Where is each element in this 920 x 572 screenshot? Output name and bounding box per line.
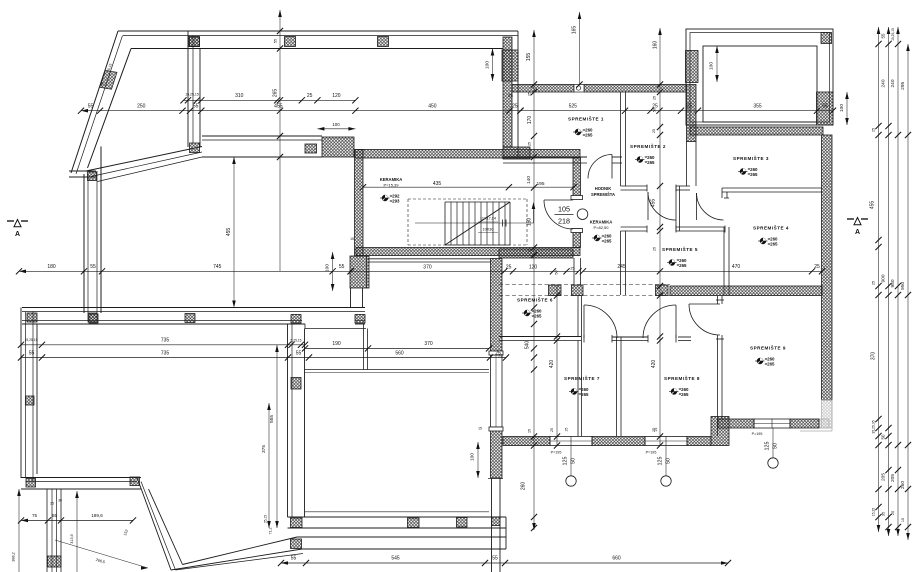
pier: hatched block below stair-room left wall	[350, 256, 369, 288]
wall: room4/5 partition x724-729	[723, 227, 725, 295]
wall: horizontal wall y136-157	[202, 135, 322, 137]
svg-text:=265: =265	[679, 392, 689, 397]
window gap in band	[574, 85, 584, 93]
svg-text:50: 50	[666, 458, 672, 464]
svg-text:370: 370	[424, 341, 433, 347]
wall: bottom wall y477-489	[21, 477, 141, 479]
door arc room7	[584, 305, 617, 338]
section marker A right	[847, 218, 854, 220]
wall: partition x676-679 vestibule	[675, 186, 677, 231]
svg-text:140: 140	[526, 176, 532, 184]
columns on band	[27, 313, 37, 322]
svg-text:560: 560	[395, 350, 404, 356]
svg-text:313,9: 313,9	[70, 534, 74, 544]
svg-text:SPREMIŠTE 6: SPREMIŠTE 6	[517, 296, 553, 303]
svg-text:525: 525	[569, 103, 578, 109]
wall: room7/8 partition x616-621	[616, 337, 618, 436]
door arc room9	[689, 304, 720, 335]
svg-text:25: 25	[527, 142, 531, 146]
svg-text:55: 55	[274, 39, 278, 43]
wall: hatched band y286-295 rooms4-9	[670, 286, 822, 296]
svg-text:260: 260	[900, 481, 906, 489]
door arc room1	[588, 155, 612, 179]
wall: terrace outer walls	[686, 29, 833, 125]
dim chain y271 right part	[351, 270, 579, 272]
wall: room1 bottom wall y157-163	[503, 156, 587, 158]
column K8 in wall	[305, 144, 317, 153]
pier: hatched block at corridor corner	[503, 147, 530, 159]
slanted dims bottom-left	[123, 529, 129, 536]
svg-text:10X30: 10X30	[483, 228, 494, 232]
svg-text:SPREMIŠTE 7: SPREMIŠTE 7	[564, 374, 600, 381]
wall: terrace inner parapet	[703, 46, 817, 122]
wall: room6 bottom wall y336-340	[499, 336, 581, 338]
svg-text:100: 100	[324, 264, 330, 272]
svg-text:=265: =265	[677, 263, 687, 268]
wall: terrace bottom hatched band y127-135	[690, 127, 823, 135]
wall: shallow slanted wall rising to east	[171, 549, 302, 570]
svg-text:100: 100	[470, 453, 476, 461]
svg-text:25: 25	[653, 96, 657, 100]
svg-text:15,25,15: 15,25,15	[185, 92, 199, 96]
svg-text:50: 50	[653, 108, 657, 112]
pier D3	[656, 285, 669, 296]
column in shaft	[48, 556, 62, 567]
svg-text:P=82,50: P=82,50	[593, 225, 609, 230]
svg-text:25: 25	[654, 428, 658, 432]
svg-text:P=195: P=195	[752, 432, 763, 436]
column M3	[408, 518, 420, 528]
svg-text:150: 150	[526, 218, 532, 227]
dim chain y110 top	[81, 110, 521, 112]
svg-text:35: 35	[881, 511, 886, 516]
svg-text:455: 455	[651, 199, 657, 208]
svg-text:245: 245	[617, 264, 626, 270]
wall: lower-left shaft walls	[46, 489, 48, 572]
wall: horizontal band y307-324	[22, 307, 365, 309]
dim chain y111 room1 and terrace	[521, 110, 834, 112]
wall: stair room right wall x573-580 with door opening	[573, 158, 581, 200]
svg-text:=265: =265	[645, 160, 655, 165]
dim chain y348 (190/370)	[305, 347, 489, 349]
svg-text:25: 25	[307, 93, 313, 99]
wall: left hatched wall x490-502	[491, 259, 503, 356]
svg-text:25: 25	[872, 281, 876, 285]
column L1	[26, 396, 35, 405]
dim 165 corridor top	[579, 12, 581, 85]
svg-text:15,25: 15,25	[872, 508, 876, 517]
wall: room5 left wall x620-625	[620, 231, 622, 295]
column K6	[190, 143, 200, 153]
svg-text:25: 25	[565, 428, 569, 432]
svg-text:25: 25	[687, 103, 693, 109]
svg-text:55: 55	[881, 33, 886, 38]
window axis room8	[665, 446, 667, 477]
wall: right exterior hatched wall x822-832	[822, 135, 833, 400]
wall: top exterior wall of upper-left rooms	[118, 30, 518, 32]
svg-text:25: 25	[872, 128, 876, 132]
svg-text:55: 55	[29, 350, 35, 356]
pier D2	[572, 285, 584, 296]
stairs: diagonal walk line	[445, 202, 510, 245]
right dim chain C x898	[897, 27, 899, 536]
dims 555/375 bottom-center left	[276, 345, 278, 528]
svg-text:25: 25	[498, 354, 502, 358]
column L3	[130, 477, 140, 486]
svg-text:5,25,15: 5,25,15	[291, 339, 302, 343]
dim chain y520 bottom-left	[21, 519, 133, 521]
svg-text:900: 900	[881, 274, 887, 282]
svg-text:P=15,39: P=15,39	[383, 183, 399, 188]
window room9	[754, 419, 790, 428]
svg-text:165: 165	[572, 26, 578, 35]
svg-text:355: 355	[753, 103, 762, 109]
wall: vertical hatched wall x503-512	[503, 37, 512, 147]
svg-text:A: A	[15, 231, 20, 238]
dim 100 terrace east	[846, 92, 848, 125]
insulation patch on slanted wall	[100, 71, 117, 90]
dim 388,2 far left bottom	[18, 489, 20, 572]
svg-text:=265: =265	[579, 392, 589, 397]
interior face lines below stair band	[368, 258, 491, 260]
axis line x660	[659, 28, 661, 446]
svg-text:125: 125	[657, 457, 663, 466]
jamb caps rooms7/8 doors	[611, 335, 613, 343]
svg-text:195: 195	[536, 181, 544, 187]
svg-text:55: 55	[193, 103, 199, 109]
svg-text:950: 950	[900, 281, 906, 289]
axis line x557	[556, 285, 558, 447]
svg-text:SPREMIŠTE 4: SPREMIŠTE 4	[753, 224, 789, 231]
inner slant wall lines	[115, 495, 120, 497]
svg-text:=265: =265	[748, 172, 758, 177]
column terrace NE	[821, 33, 832, 44]
dim 313,9	[76, 491, 78, 572]
wall: short wall below pier	[350, 288, 352, 308]
column K2 on top wall	[285, 37, 296, 47]
svg-text:25,15: 25,15	[264, 515, 268, 523]
svg-text:545: 545	[391, 555, 400, 561]
svg-text:SPREMIŠTE 9: SPREMIŠTE 9	[750, 344, 786, 351]
svg-text:205: 205	[881, 473, 887, 481]
svg-text:=265: =265	[532, 314, 542, 319]
svg-text:35,25,35: 35,25,35	[872, 420, 876, 433]
jamb caps vestibule	[646, 185, 648, 192]
door 105 swing arc into stair room	[544, 200, 573, 229]
svg-text:265: 265	[273, 89, 279, 98]
wall: hatched wall x686-696 between room2 and room3	[687, 85, 697, 142]
svg-text:240: 240	[890, 79, 896, 87]
column M4	[291, 539, 302, 549]
window room8	[645, 437, 687, 446]
svg-text:240: 240	[881, 79, 887, 87]
svg-text:120: 120	[332, 93, 341, 99]
wall: room2 bottom wall y186-190	[621, 185, 648, 187]
svg-text:310: 310	[235, 93, 244, 99]
pier: big block 500-518 y50-81	[502, 50, 518, 81]
step lines below band toward room	[304, 324, 306, 329]
svg-text:=265: =265	[768, 242, 778, 247]
wall: slanted lower wall of pentagon room	[86, 147, 202, 172]
svg-text:190: 190	[332, 341, 341, 347]
svg-text:15,25,15: 15,25,15	[891, 28, 895, 41]
section marker A left	[7, 220, 14, 222]
svg-text:420: 420	[651, 360, 657, 369]
svg-text:A: A	[855, 229, 860, 236]
svg-text:15,25,15: 15,25,15	[25, 338, 38, 342]
door jambs of door 105	[571, 196, 583, 200]
wall: corridor bottom wall hatched y249-258	[499, 249, 573, 258]
column K4 at west corner	[88, 172, 97, 181]
wall: bottom wall y517-528	[288, 516, 507, 518]
svg-text:189,6: 189,6	[91, 513, 103, 518]
svg-text:SPREMIŠTE 3: SPREMIŠTE 3	[733, 154, 769, 161]
wall: lower step band y537-549	[297, 536, 506, 538]
window axis room7	[570, 446, 572, 477]
column K5	[88, 313, 97, 322]
dim 100 below stair room	[332, 252, 334, 291]
svg-text:455: 455	[274, 103, 283, 109]
svg-text:SPREMIŠTA: SPREMIŠTA	[591, 192, 615, 197]
window axis room9	[772, 428, 774, 458]
svg-text:15: 15	[901, 518, 905, 522]
door arc vestibule west	[648, 192, 676, 220]
door number circle	[577, 209, 588, 220]
wall: room5 top wall y227-231	[621, 226, 648, 228]
wall: hatched band y84-92 above rooms 1-2	[512, 85, 574, 93]
svg-text:KERAMIKA: KERAMIKA	[590, 220, 613, 225]
svg-text:=265: =265	[602, 239, 612, 244]
svg-text:11X17,24: 11X17,24	[480, 217, 496, 221]
ghost wall continuation (gray)	[822, 400, 833, 428]
wall: stair room left wall hatched x354-363	[355, 150, 364, 257]
dim chain y345	[21, 344, 305, 346]
level symbol stair room	[382, 195, 388, 201]
wall: stair room bottom wall hatched y247-255	[356, 248, 580, 256]
stairs: direction arrow	[415, 222, 534, 224]
svg-text:370: 370	[871, 352, 877, 361]
wall: corridor side walls x574-580 below stair room	[573, 258, 575, 285]
svg-text:50: 50	[555, 270, 559, 274]
svg-text:25: 25	[527, 92, 531, 96]
svg-text:25: 25	[890, 510, 895, 515]
dim 100 top-center	[317, 128, 355, 130]
dim 435 inside stair room	[363, 186, 574, 188]
door arc vestibule east	[697, 193, 724, 220]
svg-text:=293: =293	[390, 199, 400, 204]
wall: room8 right / room9 left x717-722	[717, 296, 719, 304]
svg-text:455: 455	[870, 201, 876, 210]
svg-text:205: 205	[890, 474, 896, 482]
pier: hatched block 322-354	[322, 137, 354, 157]
svg-text:=265: =265	[765, 362, 775, 367]
svg-text:SPREMIŠTE 5: SPREMIŠTE 5	[662, 245, 698, 252]
svg-text:P=195: P=195	[551, 451, 562, 455]
svg-text:100: 100	[332, 122, 340, 127]
svg-text:=265: =265	[583, 133, 593, 138]
wall segment between doors y337-340	[612, 336, 648, 338]
svg-text:55: 55	[52, 513, 58, 518]
svg-text:260: 260	[521, 482, 527, 491]
svg-text:SPREMIŠTE 2: SPREMIŠTE 2	[630, 142, 666, 149]
svg-text:100: 100	[839, 104, 845, 112]
svg-text:555: 555	[269, 415, 275, 423]
right dim chain A x878.5	[878, 27, 880, 532]
svg-text:660: 660	[612, 555, 621, 561]
door arc room8	[643, 305, 676, 338]
svg-text:25: 25	[652, 129, 656, 133]
level symbol corridor	[594, 235, 600, 241]
stairs: tread lines	[444, 202, 446, 245]
dim chain y271 rooms 4-9	[583, 270, 822, 272]
column K7	[190, 37, 200, 47]
svg-text:15: 15	[350, 237, 354, 241]
svg-text:180: 180	[47, 264, 56, 270]
svg-text:25: 25	[814, 264, 820, 270]
svg-text:540: 540	[525, 341, 531, 350]
svg-text:735: 735	[161, 338, 170, 344]
svg-text:25: 25	[550, 428, 554, 432]
svg-text:435: 435	[433, 181, 442, 187]
column K3 on top wall	[378, 37, 389, 47]
wall: vertical wall x188-200 between pentagon and room	[187, 31, 189, 147]
wall: top wall line y369-372	[305, 369, 490, 371]
dashed overhead lines y284-295	[499, 284, 670, 286]
svg-text:455: 455	[226, 228, 232, 237]
svg-text:55: 55	[88, 103, 94, 109]
svg-text:25: 25	[527, 249, 531, 253]
svg-text:250: 250	[137, 103, 146, 109]
svg-text:100: 100	[709, 62, 715, 70]
svg-text:388,2: 388,2	[12, 552, 16, 562]
dim 455 mid-left room	[233, 157, 235, 306]
svg-text:170: 170	[527, 116, 533, 125]
svg-text:25: 25	[50, 502, 54, 506]
axis line x534 full height	[533, 30, 535, 530]
svg-text:15: 15	[478, 427, 482, 431]
svg-text:KERAMIKA: KERAMIKA	[380, 177, 403, 182]
ghost outline right of room9	[833, 124, 843, 126]
dim chain y357	[21, 357, 506, 359]
svg-text:420: 420	[549, 360, 555, 369]
svg-text:25: 25	[508, 93, 513, 98]
svg-text:50: 50	[773, 443, 779, 449]
svg-text:55: 55	[90, 264, 96, 270]
svg-text:55: 55	[492, 555, 498, 561]
wall: vertical wall x84-101 of mid-left room	[83, 174, 85, 313]
right dim chain D x908	[907, 44, 909, 540]
column L2	[26, 479, 36, 488]
svg-text:30: 30	[58, 499, 62, 503]
svg-text:375: 375	[261, 445, 267, 453]
svg-text:25: 25	[570, 267, 574, 271]
dim chain y100 top	[184, 99, 356, 101]
wall: partition x620-626 between room1 and room2	[620, 92, 622, 186]
svg-text:155: 155	[526, 53, 532, 62]
svg-text:745: 745	[213, 264, 222, 270]
svg-text:55: 55	[291, 555, 297, 561]
svg-text:55: 55	[339, 264, 345, 270]
svg-text:25: 25	[653, 247, 657, 251]
svg-text:71,2: 71,2	[269, 528, 273, 535]
wall: small jog at west corner	[69, 170, 96, 172]
wall segment y337-340 east	[678, 336, 691, 338]
svg-text:100: 100	[485, 61, 491, 69]
wall: slanted north-west exterior wall	[71, 31, 118, 173]
corner pier room8/9	[711, 417, 729, 446]
column M1	[291, 378, 301, 390]
svg-text:25: 25	[512, 103, 518, 109]
svg-text:50: 50	[881, 434, 886, 439]
svg-text:218: 218	[558, 217, 570, 226]
svg-text:370: 370	[423, 265, 432, 271]
wall: room9 bottom hatched band y419-428 with window	[718, 419, 754, 428]
svg-text:295: 295	[900, 81, 906, 89]
svg-text:105: 105	[558, 205, 570, 214]
column M2	[291, 518, 303, 528]
dim 100 terrace west	[716, 46, 718, 82]
svg-text:470: 470	[732, 264, 741, 270]
svg-text:450: 450	[428, 103, 437, 109]
wall: stair room top wall hatched y149-158	[355, 150, 580, 159]
column M5	[457, 518, 468, 528]
window in left wall	[490, 355, 492, 427]
svg-text:735: 735	[161, 350, 170, 356]
svg-text:120: 120	[529, 265, 538, 271]
svg-text:55: 55	[822, 103, 828, 109]
column K1 on top wall	[189, 37, 200, 47]
svg-text:15: 15	[527, 429, 531, 433]
pier terrace SE	[817, 92, 834, 125]
column on wall extension	[492, 517, 501, 526]
wall: steep slanted wall at south-west corner	[137, 478, 171, 571]
wall: white wall extension x491-500 below y478	[491, 478, 493, 572]
stairs: dashed outline of upper flight	[408, 199, 527, 245]
wall: left exterior wall x21-37	[20, 308, 22, 479]
svg-text:125: 125	[562, 457, 568, 466]
svg-text:50: 50	[571, 458, 577, 464]
pier terrace west	[686, 51, 699, 83]
axis line x280 with labels	[279, 10, 281, 271]
wall: rooms7-8 bottom hatched band y436-445 with windows	[503, 437, 550, 446]
right dim chain B x888.5	[888, 27, 890, 536]
dim chain y271 mid	[19, 270, 351, 272]
pier D1	[549, 285, 562, 296]
svg-text:HODNIK: HODNIK	[595, 186, 612, 191]
svg-text:55: 55	[296, 350, 302, 356]
svg-text:SPREMIŠTE 8: SPREMIŠTE 8	[664, 374, 700, 381]
svg-text:25: 25	[506, 265, 512, 271]
svg-text:SPREMIŠTE 1: SPREMIŠTE 1	[568, 115, 604, 122]
svg-text:950: 950	[890, 279, 896, 287]
wall: room3 bottom wall y188-192	[722, 187, 822, 189]
dim 100 pier top-left of corridor	[492, 49, 494, 82]
window room7	[550, 437, 592, 446]
svg-text:75: 75	[32, 513, 38, 518]
svg-text:P=195: P=195	[646, 451, 657, 455]
dim 100 bottom-center room right	[477, 442, 479, 478]
wall: left wall x287-304 of bottom-center room	[287, 324, 289, 517]
dim chain y563 bottom	[281, 562, 728, 564]
wall: room6 right / room7 left x578-581	[577, 296, 579, 337]
svg-text:160: 160	[652, 41, 658, 50]
svg-text:125: 125	[764, 442, 770, 451]
